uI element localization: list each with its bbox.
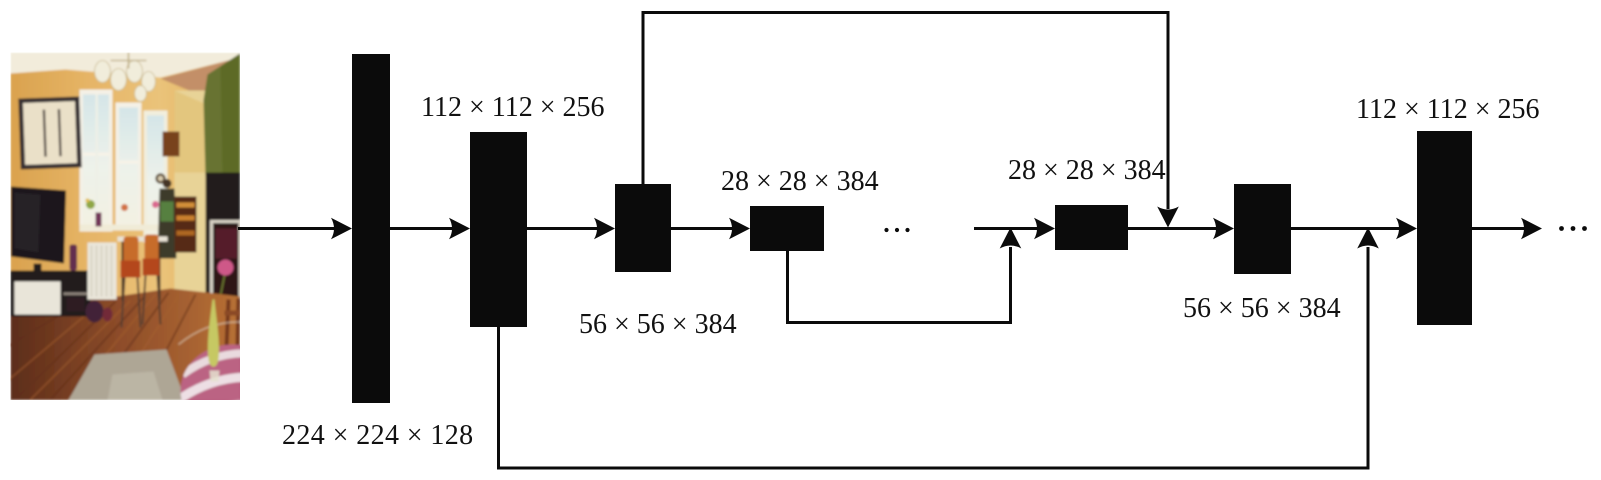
- photo: TV: [11, 187, 66, 264]
- conv bar 56x56x384 (decoder): [1234, 184, 1291, 274]
- photo: fireplace inset: [212, 222, 241, 299]
- input image (living-room photo): [6, 53, 287, 437]
- arrow bar6 to bar7: [1291, 227, 1405, 230]
- svg-text:28 × 28 × 384: 28 × 28 × 384: [721, 166, 879, 197]
- photo: green flower bud: [208, 300, 219, 367]
- photo: radiator: [88, 243, 117, 300]
- photo: dark doorway: [206, 173, 241, 304]
- photo: chair legs right: [227, 299, 239, 348]
- ellipsis dots middle: [884, 228, 888, 232]
- photo: wall background: [11, 53, 241, 401]
- photo: window C: [144, 111, 168, 243]
- photo: wall cupboard: [163, 132, 180, 157]
- photo: chandelier: [95, 61, 156, 102]
- photo: green wall: [204, 54, 241, 178]
- conv bar 112x112x256 (encoder): [470, 132, 527, 327]
- photo: picture frame: [18, 96, 81, 169]
- arrow bar2 to bar3: [527, 227, 603, 230]
- svg-text:224 × 224 × 128: 224 × 224 × 128: [282, 420, 474, 451]
- photo: rug: [69, 350, 186, 401]
- arrow bar5 to bar6: [1128, 227, 1222, 230]
- ellipsis dots output: [1559, 226, 1564, 231]
- arrow bar7 to output: [1472, 227, 1530, 230]
- arrow bar3 to bar4: [671, 227, 738, 230]
- photo: window B: [116, 103, 142, 230]
- svg-text:112 × 112 × 256: 112 × 112 × 256: [421, 92, 605, 123]
- photo: floor: [11, 289, 241, 401]
- arrow bar1 to bar2: [390, 227, 458, 230]
- svg-text:28 × 28 × 384: 28 × 28 × 384: [1008, 155, 1166, 186]
- conv bar 56x56x384 (encoder): [615, 184, 671, 272]
- photo: display cabinet: [175, 197, 197, 253]
- photo: dark bag: [86, 301, 104, 323]
- conv bar 224x224x128: [352, 54, 390, 403]
- svg-text:112 × 112 × 256: 112 × 112 × 256: [1356, 94, 1540, 125]
- photo: bar stools: [124, 237, 139, 264]
- photo: wall clock: [155, 173, 165, 183]
- conv bar 112x112x256 (decoder): [1417, 131, 1472, 325]
- conv bar 28x28x384 (encoder): [750, 206, 824, 251]
- arrow into bar5: [974, 227, 1043, 230]
- skip connection top (56 to decoder): [643, 13, 1168, 210]
- photo: arch column: [175, 91, 207, 336]
- svg-text:56 × 56 × 384: 56 × 56 × 384: [1183, 293, 1341, 324]
- photo: window A: [80, 90, 113, 232]
- photo: flowers on sill: [86, 200, 95, 209]
- photo: bar table: [118, 237, 168, 242]
- skip connection middle (28 to decoder): [788, 247, 1011, 323]
- photo: person: [163, 179, 172, 188]
- photo: soft veil: [11, 53, 241, 401]
- svg-text:56 × 56 × 384: 56 × 56 × 384: [579, 309, 737, 340]
- skip connection bottom (112 to decoder): [499, 247, 1369, 468]
- photo: purple vase: [70, 245, 78, 271]
- photo: ceiling: [11, 53, 241, 78]
- photo: TV stand: [11, 271, 91, 317]
- arrow photo to bar1: [238, 227, 340, 230]
- photo: glass table rim: [179, 322, 249, 345]
- conv bar 28x28x384 (decoder): [1055, 205, 1128, 250]
- photo: sill band: [80, 225, 168, 231]
- photo: pink striped table: [181, 345, 287, 437]
